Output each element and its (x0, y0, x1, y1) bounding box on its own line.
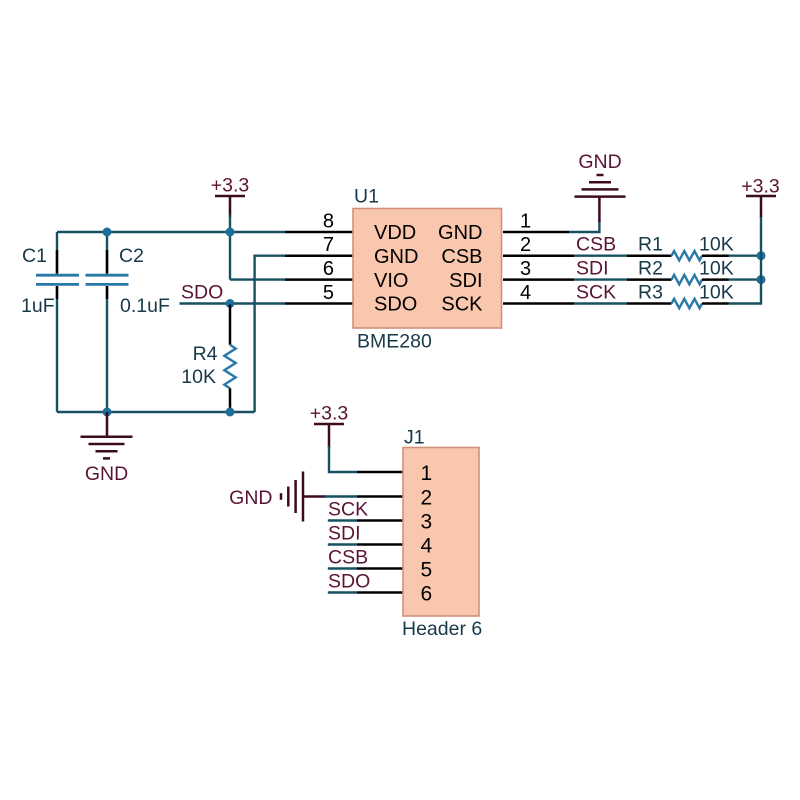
net label SDO (header) (328, 571, 370, 593)
svg-text:6: 6 (421, 583, 433, 606)
net label SDO (181, 282, 223, 304)
svg-text:5: 5 (323, 282, 334, 304)
wire top rail (57, 231, 285, 233)
pin number 5 (323, 282, 334, 304)
power symbol +3.3 (right) (741, 176, 780, 218)
pin J1-1 stub (357, 471, 403, 474)
svg-text:SDI: SDI (328, 523, 361, 545)
wire bottom rail (57, 411, 255, 413)
pin number 2 (520, 234, 531, 256)
svg-text:SDI: SDI (449, 270, 482, 292)
svg-text:+3.3: +3.3 (741, 176, 780, 198)
wire C2 column bottom (106, 287, 108, 413)
pin number 3 (520, 258, 531, 280)
pin J1-3 stub (357, 519, 403, 522)
junction top rail / C2 (103, 228, 112, 237)
wire SDO to J1 pin6 (328, 591, 357, 593)
resistor R3 (627, 282, 734, 309)
IC U1 BME280 (353, 186, 502, 353)
svg-text:SCK: SCK (576, 282, 616, 304)
svg-text:R2: R2 (638, 258, 663, 280)
svg-text:+3.3: +3.3 (211, 175, 250, 197)
svg-text:R4: R4 (193, 343, 218, 365)
wire SCK to J1 pin3 (328, 519, 357, 521)
pin U1-5 stub (285, 302, 353, 305)
svg-text:R1: R1 (638, 234, 663, 256)
wire R1 to +3.3 rail (729, 254, 762, 256)
svg-text:1: 1 (421, 462, 433, 485)
pin J1-6 stub (357, 591, 403, 594)
svg-text:0.1uF: 0.1uF (120, 295, 170, 317)
svg-text:SCK: SCK (328, 499, 368, 521)
net label SDI (header) (328, 523, 361, 545)
junction SDO / R4 (226, 299, 235, 308)
pin number 6 (323, 258, 334, 280)
svg-text:10K: 10K (699, 234, 734, 256)
wire SDI to J1 pin4 (328, 543, 357, 545)
svg-text:CSB: CSB (328, 547, 368, 569)
svg-text:C2: C2 (119, 245, 144, 267)
pin U1-2 stub (503, 254, 574, 257)
resistor R1 (627, 234, 734, 261)
svg-text:SDI: SDI (576, 258, 609, 280)
svg-text:1: 1 (520, 211, 531, 233)
svg-text:Header 6: Header 6 (402, 618, 482, 640)
net label CSB (576, 234, 616, 256)
wire SCK row (574, 302, 627, 304)
svg-text:4: 4 (421, 535, 433, 558)
resistor R2 (627, 258, 734, 285)
svg-text:8: 8 (323, 211, 334, 233)
svg-text:GND: GND (229, 487, 272, 509)
wire +3.3 to J1 pin1 (329, 446, 357, 472)
svg-text:6: 6 (323, 258, 334, 280)
svg-text:5: 5 (421, 559, 433, 582)
wire GND to J1 pin2 (324, 495, 357, 497)
svg-text:10K: 10K (699, 258, 734, 280)
svg-text:10K: 10K (181, 366, 216, 388)
pin U1-4 stub (503, 302, 574, 305)
pin number 8 (323, 211, 334, 233)
svg-text:3: 3 (421, 511, 433, 534)
pin U1-8 stub (285, 231, 353, 234)
svg-text:CSB: CSB (441, 246, 482, 268)
ground symbol (bottom left) (81, 412, 133, 485)
svg-text:VDD: VDD (374, 222, 416, 244)
junction R2 / +3.3 rail (757, 275, 766, 284)
pin J1-5 stub (357, 567, 403, 570)
wire SDO row (180, 302, 286, 304)
svg-text:GND: GND (578, 151, 621, 173)
wire R2 to +3.3 rail (729, 278, 762, 280)
svg-text:GND: GND (438, 222, 482, 244)
svg-text:SCK: SCK (441, 294, 483, 316)
wire R3 to +3.3 rail riser (729, 215, 762, 304)
ground symbol (top, U1 pin1) (575, 151, 626, 222)
capacitor C2 (86, 245, 170, 317)
junction +3.3 / top rail (226, 228, 235, 237)
wire CSB row (574, 254, 627, 256)
connector J1 Header 6 (402, 427, 482, 641)
wire CSB to J1 pin5 (328, 567, 357, 569)
wire C1 column top (56, 232, 58, 274)
power symbol +3.3 (left) (211, 175, 250, 218)
svg-text:BME280: BME280 (357, 331, 432, 353)
pin number 1 (520, 211, 531, 233)
svg-text:R3: R3 (638, 282, 663, 304)
svg-text:+3.3: +3.3 (310, 403, 349, 425)
svg-text:J1: J1 (404, 427, 425, 449)
pin number 4 (520, 282, 531, 304)
svg-text:CSB: CSB (576, 234, 616, 256)
wire +3.3 drop to VDD rail and VIO (229, 215, 231, 280)
wire SDI row (574, 278, 627, 280)
pin J1-4 stub (357, 543, 403, 546)
pin J1-2 stub (357, 495, 403, 498)
power symbol +3.3 (header) (310, 403, 349, 449)
svg-text:VIO: VIO (374, 270, 408, 292)
wire C2 column top (106, 232, 108, 274)
svg-text:7: 7 (323, 234, 334, 256)
pin U1-3 stub (503, 278, 574, 281)
svg-text:GND: GND (85, 463, 128, 485)
wire VIO row (230, 278, 285, 280)
svg-text:10K: 10K (699, 282, 734, 304)
svg-text:SDO: SDO (328, 571, 370, 593)
svg-text:3: 3 (520, 258, 531, 280)
capacitor C1 (21, 245, 79, 317)
svg-text:SDO: SDO (181, 282, 223, 304)
svg-text:GND: GND (374, 246, 418, 268)
svg-text:4: 4 (520, 282, 531, 304)
pin U1-1 stub (503, 231, 569, 234)
svg-text:SDO: SDO (374, 294, 417, 316)
net label CSB (header) (328, 547, 368, 569)
net label SCK (576, 282, 616, 304)
junction bottom rail / R4 (226, 408, 235, 417)
net label SDI (576, 258, 609, 280)
ground symbol (header, left-pointing) (229, 472, 326, 522)
pin U1-6 stub (285, 278, 353, 281)
svg-text:C1: C1 (22, 245, 47, 267)
junction bottom rail / C2 (103, 408, 112, 417)
resistor R4 (181, 305, 235, 412)
wire C1 column bottom (56, 287, 58, 413)
net label SCK (header) (328, 499, 368, 521)
svg-text:U1: U1 (354, 186, 379, 208)
svg-text:2: 2 (421, 487, 433, 510)
wire U1 pin1 to GND (569, 220, 599, 232)
pin U1-7 stub (285, 254, 353, 257)
svg-text:2: 2 (520, 234, 531, 256)
wire GND row from U1 pin7 (255, 256, 285, 412)
junction R1 / +3.3 rail (757, 251, 766, 260)
pin number 7 (323, 234, 334, 256)
svg-text:1uF: 1uF (21, 295, 55, 317)
